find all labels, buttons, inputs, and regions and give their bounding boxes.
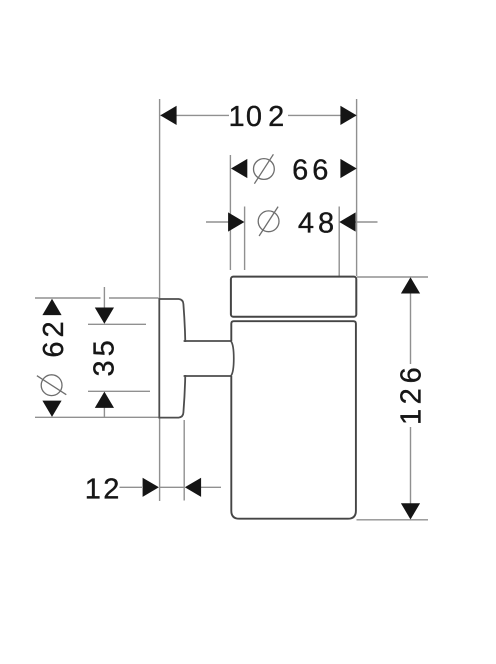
svg-text:1: 1 (229, 101, 245, 133)
arrow 102 left (160, 106, 176, 125)
svg-text:35: 35 (88, 336, 120, 376)
arrow 66 right (340, 159, 356, 178)
dimension line 102 right segment (288, 114, 357, 116)
leader line 12 right (201, 486, 221, 488)
svg-text:0: 0 (246, 101, 262, 133)
arrow 126 bottom (pointing down) (401, 503, 420, 519)
diameter symbol of 48 (258, 207, 279, 236)
bottom extension line of 126 (357, 519, 429, 521)
leader line 48 right (355, 221, 378, 223)
diameter symbol of 62 (rotated) (37, 375, 66, 396)
arrow 35 top (pointing down) (95, 308, 114, 324)
arrow 12 right (pointing left) (185, 478, 201, 497)
dimension line 12 middle segment (160, 486, 184, 488)
svg-text:6: 6 (395, 367, 427, 383)
top extension line of 62 left segment (35, 297, 101, 299)
arrow 12 left (pointing right) (143, 478, 159, 497)
svg-text:66: 66 (292, 155, 332, 187)
mounting arm fill (184, 342, 232, 375)
svg-text:1: 1 (395, 409, 427, 425)
left extension line of 66 (229, 155, 231, 270)
bottom extension line of 35 (88, 390, 150, 392)
wall extension line (left of 102, wall surface) (159, 99, 161, 501)
dimension line 126 lower segment (410, 427, 412, 504)
leader line 12 left (120, 486, 143, 488)
svg-text:48: 48 (298, 207, 338, 239)
dimension line 126 upper segment (410, 292, 412, 364)
svg-text:2: 2 (395, 388, 427, 404)
left extension line of 48 (244, 207, 246, 271)
top extension line of 35 (88, 323, 146, 325)
dimension line 102 left segment (161, 114, 230, 116)
arrow 66 left (231, 159, 247, 178)
right extension line of 48 (338, 207, 340, 277)
arrow 126 top (pointing up) (401, 277, 420, 293)
top extension line of 62 right segment (109, 297, 159, 299)
diameter symbol of 66 (254, 154, 275, 183)
arrow 62 bottom (pointing down) (42, 401, 61, 417)
arrow 48 left (pointing right) (228, 212, 244, 231)
svg-text:1: 1 (85, 473, 101, 505)
wall plate (side view, D-shape) (159, 299, 185, 418)
arrow 102 right (340, 106, 356, 125)
dimension line 35 upper segment (103, 287, 105, 309)
tumbler rim (top ring) (231, 277, 356, 317)
svg-text:62: 62 (38, 317, 70, 357)
leader line 48 left (206, 221, 230, 223)
arrow 62 top (pointing up) (42, 299, 61, 315)
right extension line of 12 (183, 420, 185, 501)
svg-text:2: 2 (268, 101, 284, 133)
bottom extension line of 62 (35, 416, 160, 418)
tumbler body (231, 321, 356, 519)
dimension line 35 lower segment (103, 408, 105, 418)
right extension line shared by 102 and 66 (356, 99, 358, 276)
arrow 35 bottom (pointing up) (95, 392, 114, 408)
top extension line of 126 (357, 276, 428, 278)
svg-text:2: 2 (103, 473, 119, 505)
mounting arm top edge (184, 340, 232, 342)
arm-to-body fillet curve (231, 341, 234, 376)
mounting arm bottom edge (184, 375, 232, 377)
arrow 48 right (pointing left) (339, 212, 355, 231)
